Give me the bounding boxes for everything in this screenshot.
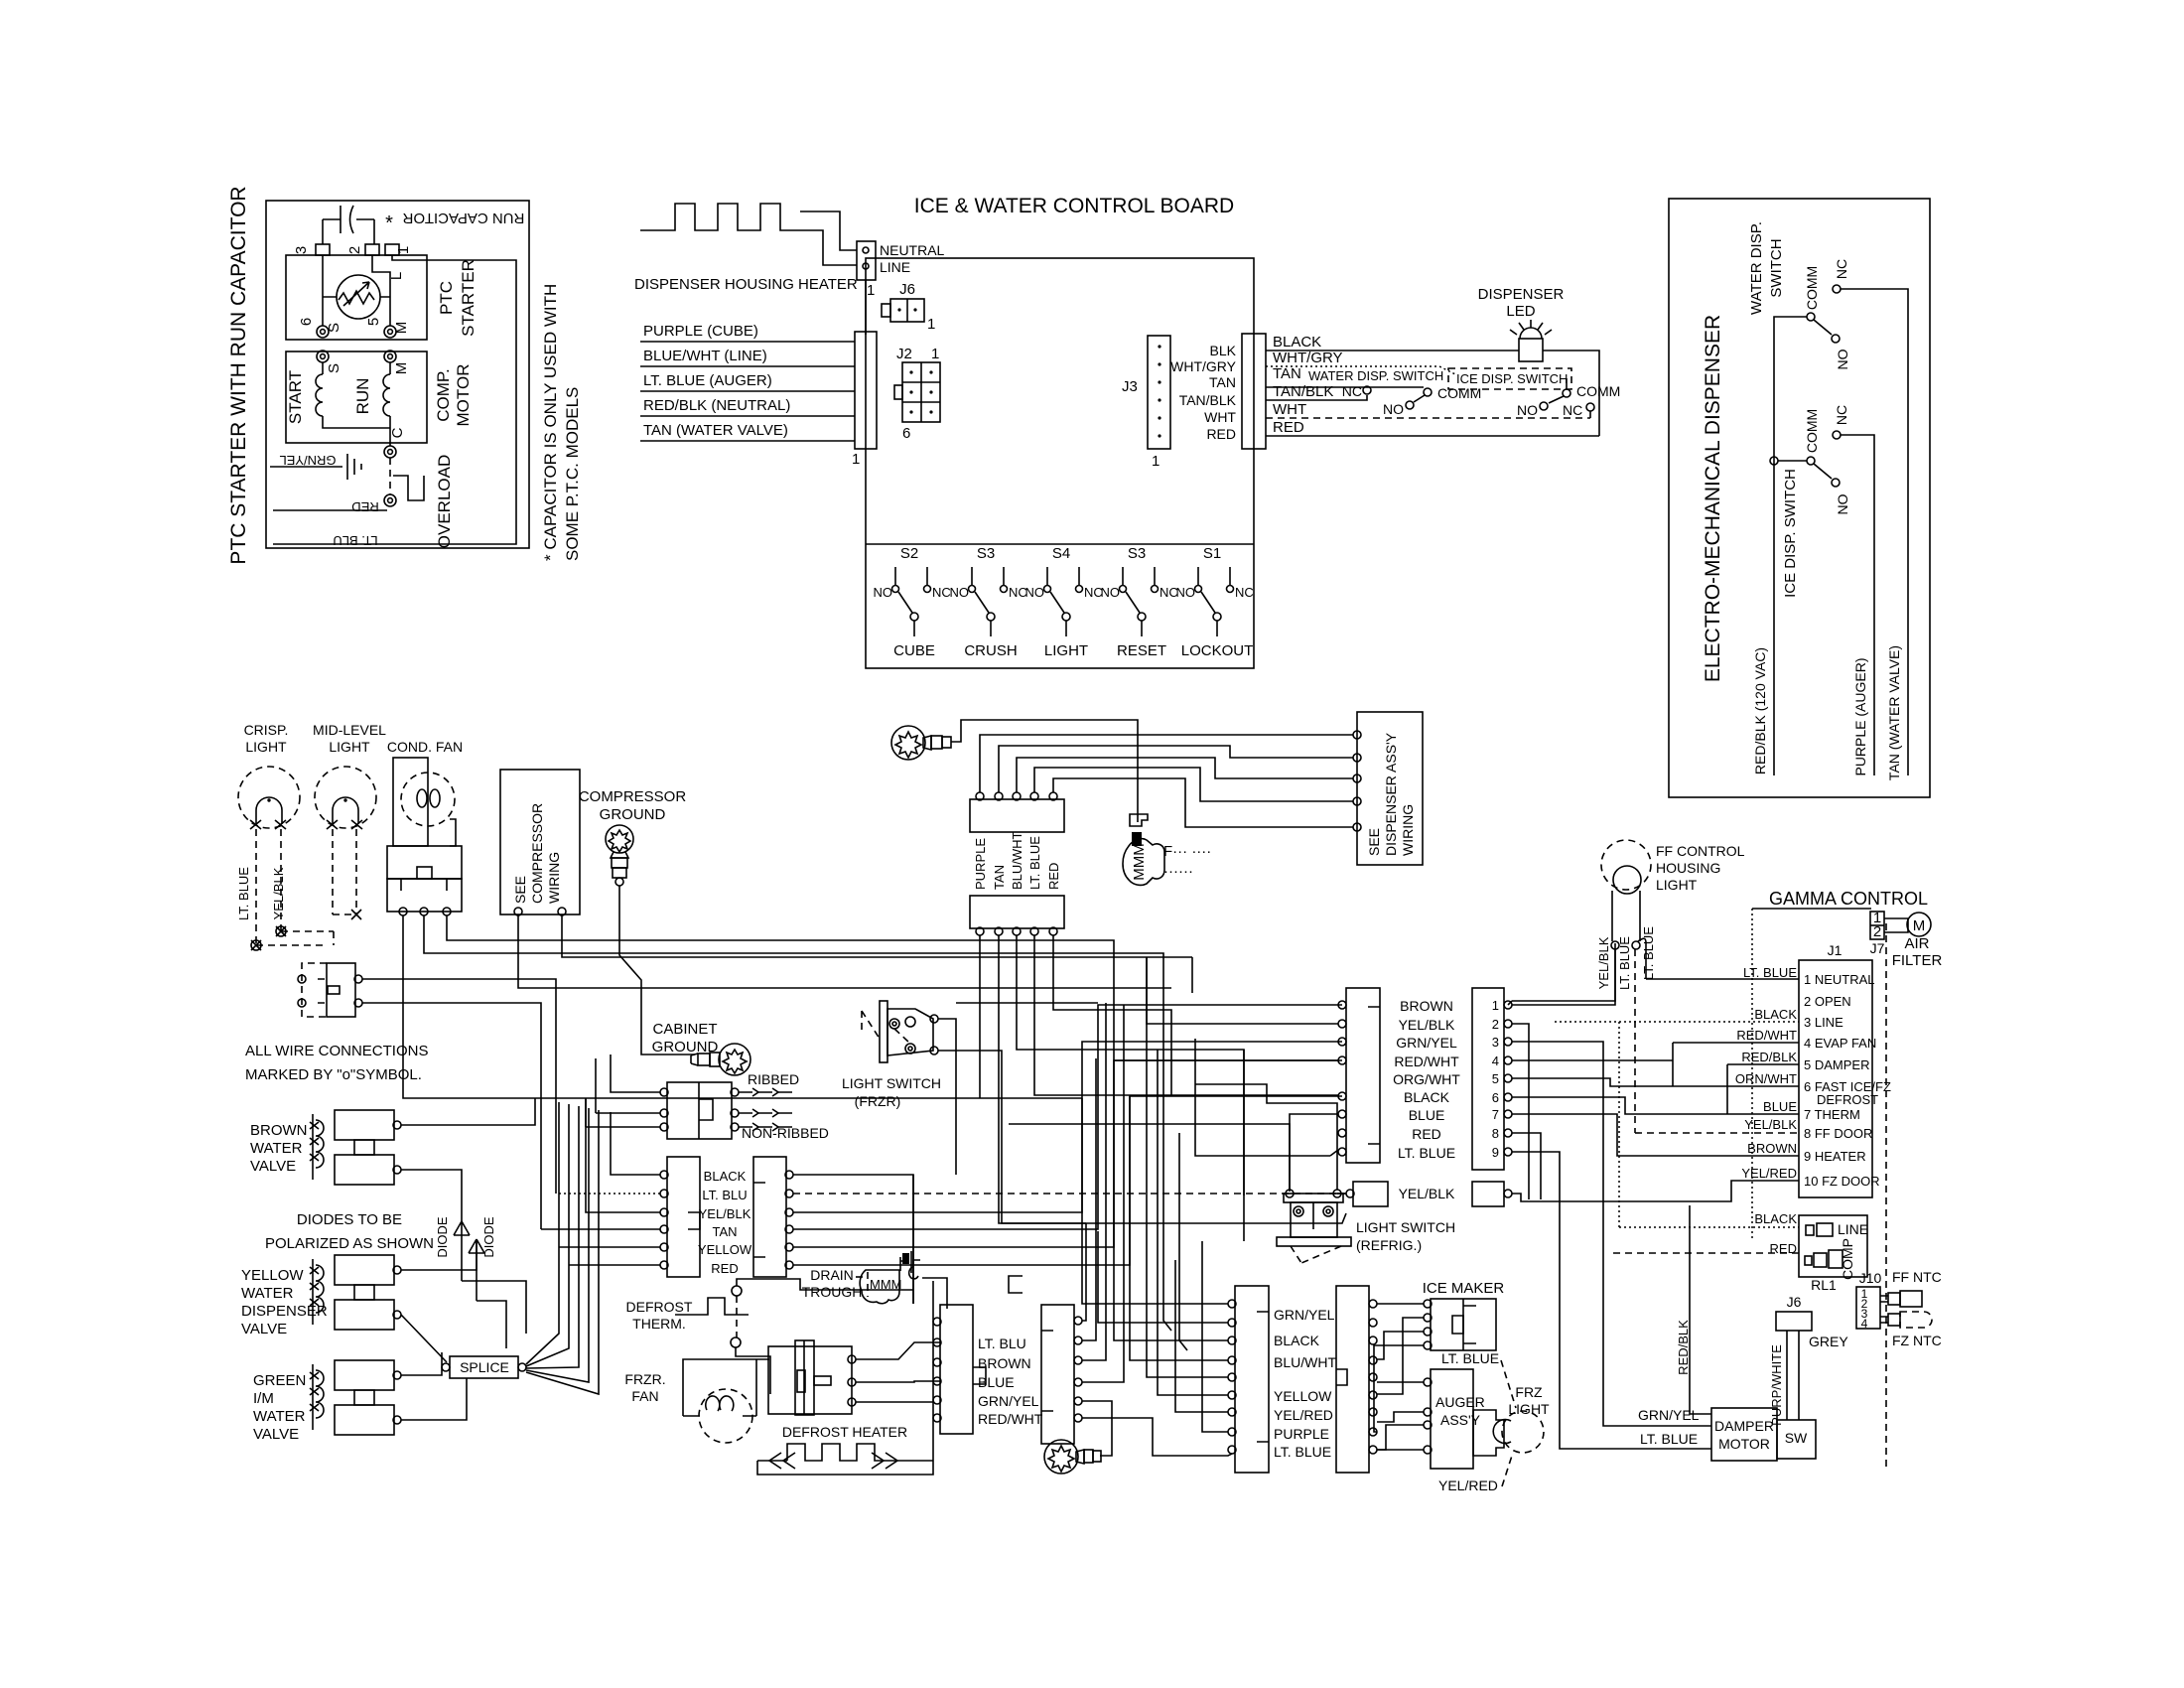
svg-text:GRN/YEL: GRN/YEL bbox=[279, 453, 336, 468]
svg-text:LOCKOUT: LOCKOUT bbox=[1181, 642, 1254, 659]
svg-text:5: 5 bbox=[1492, 1071, 1499, 1086]
svg-text:RED: RED bbox=[1206, 426, 1236, 442]
svg-text:MARKED BY "o"SYMBOL.: MARKED BY "o"SYMBOL. bbox=[245, 1066, 422, 1083]
svg-text:BLUE/WHT (LINE): BLUE/WHT (LINE) bbox=[643, 348, 767, 364]
svg-text:J10: J10 bbox=[1859, 1270, 1882, 1286]
svg-text:4: 4 bbox=[1861, 1317, 1868, 1331]
svg-text:LT. BLUE (AUGER): LT. BLUE (AUGER) bbox=[643, 372, 772, 389]
svg-text:(FRZR): (FRZR) bbox=[855, 1093, 901, 1109]
svg-text:LINE: LINE bbox=[880, 259, 910, 275]
svg-text:RED/BLK (120 VAC): RED/BLK (120 VAC) bbox=[1752, 647, 1768, 774]
svg-text:COMM: COMM bbox=[1437, 385, 1481, 401]
svg-text:CABINET: CABINET bbox=[652, 1021, 717, 1038]
svg-text:1: 1 bbox=[1152, 453, 1160, 470]
terminal 6/S bbox=[317, 326, 329, 338]
svg-text:WHT/GRY: WHT/GRY bbox=[1170, 358, 1237, 374]
svg-text:WATER DISP. SWITCH: WATER DISP. SWITCH bbox=[1308, 368, 1443, 383]
svg-text:2: 2 bbox=[1873, 923, 1881, 940]
svg-text:LED: LED bbox=[1506, 303, 1535, 320]
PTC starter box U1 bbox=[286, 255, 427, 340]
svg-text:YEL/RED: YEL/RED bbox=[1438, 1477, 1498, 1493]
ice disp switch bbox=[1563, 389, 1570, 397]
svg-text:7: 7 bbox=[1492, 1107, 1499, 1122]
svg-text:STARTER: STARTER bbox=[459, 259, 478, 337]
svg-text:5 DAMPER: 5 DAMPER bbox=[1804, 1057, 1869, 1072]
svg-text:YEL/BLK: YEL/BLK bbox=[699, 1206, 751, 1221]
svg-text:LT. BLUE: LT. BLUE bbox=[1398, 1145, 1455, 1161]
connector NEUTRAL/LINE bbox=[857, 241, 876, 280]
svg-text:TAN: TAN bbox=[1209, 374, 1236, 390]
svg-text:TAN: TAN bbox=[992, 865, 1007, 890]
svg-text:PTC: PTC bbox=[437, 281, 456, 315]
svg-text:AIR: AIR bbox=[1904, 935, 1929, 952]
svg-text:RED: RED bbox=[1046, 863, 1061, 890]
svg-text:RED/WHT: RED/WHT bbox=[978, 1411, 1043, 1427]
svg-text:RUN: RUN bbox=[353, 378, 372, 415]
wire heater to NEUTRAL bbox=[800, 211, 857, 250]
svg-text:RED/BLK: RED/BLK bbox=[1741, 1050, 1797, 1064]
svg-text:6: 6 bbox=[902, 425, 910, 442]
enclosure box bbox=[266, 201, 529, 548]
svg-text:3: 3 bbox=[293, 246, 310, 254]
svg-text:TROUGH: TROUGH bbox=[802, 1284, 863, 1300]
svg-text:1: 1 bbox=[927, 316, 935, 333]
svg-text:LT. BLUE: LT. BLUE bbox=[1743, 965, 1797, 980]
svg-text:ELECTRO-MECHANICAL DISPENSER: ELECTRO-MECHANICAL DISPENSER bbox=[1702, 315, 1724, 682]
svg-text:DRAIN: DRAIN bbox=[810, 1267, 854, 1283]
svg-text:RED: RED bbox=[1273, 419, 1304, 436]
svg-text:BLUE: BLUE bbox=[978, 1374, 1015, 1390]
svg-text:LIGHT: LIGHT bbox=[1508, 1401, 1550, 1417]
SPLICE bbox=[450, 1356, 518, 1378]
switch row S4 LIGHT bbox=[1025, 545, 1103, 659]
wire LT. BLU to pin1 bbox=[273, 255, 516, 544]
svg-text:RED: RED bbox=[1412, 1126, 1441, 1142]
crisp light bulb bbox=[238, 767, 300, 828]
svg-text:COMPRESSOR: COMPRESSOR bbox=[579, 788, 687, 805]
svg-text:8: 8 bbox=[1492, 1126, 1499, 1141]
wire TAN (WATER VALVE) bbox=[1841, 289, 1908, 775]
svg-text:LT. BLUE: LT. BLUE bbox=[1617, 936, 1632, 990]
svg-text:WHT: WHT bbox=[1273, 401, 1306, 418]
svg-text:6: 6 bbox=[1492, 1090, 1499, 1105]
svg-text:2: 2 bbox=[346, 246, 363, 254]
svg-text:NC: NC bbox=[1342, 383, 1362, 399]
YEL/BLK boxes bbox=[1353, 1182, 1388, 1206]
svg-text:DIODES TO BE: DIODES TO BE bbox=[297, 1211, 402, 1228]
svg-text:RED: RED bbox=[711, 1261, 738, 1276]
connector J7 bbox=[1870, 912, 1884, 939]
wires from cond fan terminals bbox=[424, 915, 1163, 1096]
svg-text:BLACK: BLACK bbox=[1754, 1007, 1797, 1022]
svg-text:VALVE: VALVE bbox=[253, 1426, 299, 1443]
PTC thermistor (circle with zigzag) bbox=[337, 275, 380, 319]
light switch (fresh food lights) bbox=[298, 963, 362, 1017]
svg-text:LIGHT: LIGHT bbox=[245, 739, 287, 755]
terminal C bbox=[384, 446, 396, 458]
svg-text:SOME P.T.C. MODELS: SOME P.T.C. MODELS bbox=[563, 387, 582, 561]
wires from light switch right bbox=[362, 979, 556, 1194]
relay RL1 bbox=[1799, 1215, 1867, 1277]
svg-text:RIBBED: RIBBED bbox=[748, 1071, 799, 1087]
svg-text:S1: S1 bbox=[1203, 545, 1221, 562]
wires right of 1-9 connector bbox=[1512, 943, 1615, 1005]
defrost heater element bbox=[757, 1444, 904, 1461]
svg-text:ALL WIRE CONNECTIONS: ALL WIRE CONNECTIONS bbox=[245, 1043, 428, 1059]
SEE COMPRESSOR WIRING box bbox=[500, 770, 580, 914]
svg-text:S2: S2 bbox=[900, 545, 918, 562]
water disp switch bbox=[1424, 388, 1432, 396]
svg-text:NC: NC bbox=[1834, 259, 1849, 279]
svg-text:5: 5 bbox=[365, 318, 382, 326]
switch row S3 CRUSH bbox=[950, 545, 1027, 659]
svg-text:COMP.: COMP. bbox=[434, 368, 453, 422]
svg-text:WATER: WATER bbox=[241, 1285, 294, 1302]
svg-text:PURPLE: PURPLE bbox=[1274, 1426, 1329, 1442]
svg-text:LT. BLU: LT. BLU bbox=[333, 533, 377, 548]
svg-text:I/M: I/M bbox=[253, 1390, 274, 1407]
water disp switch (rotated) bbox=[1807, 313, 1815, 321]
svg-text:BLK: BLK bbox=[1210, 343, 1237, 358]
svg-text:POLARIZED AS SHOWN: POLARIZED AS SHOWN bbox=[265, 1235, 434, 1252]
SEE DISPENSER ASS'Y WIRING box bbox=[1357, 712, 1423, 865]
wire RED bbox=[273, 509, 387, 511]
auger wires bbox=[1377, 1381, 1424, 1383]
svg-text:SEE: SEE bbox=[512, 876, 528, 904]
svg-text:WIRING: WIRING bbox=[546, 852, 562, 904]
svg-text:* CAPACITOR IS ONLY USED WITH: * CAPACITOR IS ONLY USED WITH bbox=[541, 284, 560, 561]
central long verticals (bundle) bbox=[912, 1175, 914, 1304]
svg-text:WHT: WHT bbox=[1204, 409, 1236, 425]
svg-text:NO: NO bbox=[1101, 585, 1121, 600]
svg-text:S: S bbox=[326, 363, 342, 373]
svg-text:FF CONTROL: FF CONTROL bbox=[1656, 843, 1745, 859]
enclosure bbox=[1669, 199, 1930, 797]
wires into ribbed connector bbox=[586, 1055, 660, 1127]
compressor ground lug bbox=[606, 825, 633, 886]
terminal S (motor) bbox=[317, 351, 329, 362]
drain trough heater pigtail bbox=[1123, 814, 1211, 885]
svg-text:NO: NO bbox=[1835, 349, 1850, 369]
svg-text:BROWN: BROWN bbox=[250, 1122, 308, 1139]
svg-text:YEL/RED: YEL/RED bbox=[1274, 1407, 1333, 1423]
connector block (lower, bottom side) bbox=[970, 896, 1064, 928]
housing light wires bbox=[1508, 949, 1615, 1005]
svg-text:S3: S3 bbox=[1128, 545, 1146, 562]
svg-text:BLACK: BLACK bbox=[1754, 1211, 1797, 1226]
ribbed/non-ribbed connector bbox=[660, 1082, 739, 1139]
svg-text:······: ······ bbox=[1163, 863, 1193, 880]
terminal M (motor) bbox=[384, 351, 396, 362]
svg-text:GRN/YEL: GRN/YEL bbox=[1396, 1035, 1457, 1051]
ribbed wire stubs bbox=[739, 1092, 792, 1127]
svg-text:DEFROST: DEFROST bbox=[626, 1299, 693, 1315]
svg-text:YEL/BLK: YEL/BLK bbox=[1744, 1117, 1797, 1132]
svg-text:FILTER: FILTER bbox=[1892, 952, 1943, 969]
svg-text:4: 4 bbox=[1492, 1054, 1499, 1068]
junction to ice disp switch bbox=[1770, 457, 1778, 465]
svg-text:NO: NO bbox=[950, 585, 970, 600]
control board outline bbox=[866, 258, 1254, 668]
svg-text:J3: J3 bbox=[1122, 378, 1138, 395]
svg-text:BLACK: BLACK bbox=[1273, 334, 1321, 351]
svg-text:ASS'Y: ASS'Y bbox=[1440, 1412, 1481, 1428]
pin 3 bbox=[316, 244, 330, 255]
svg-text:S3: S3 bbox=[977, 545, 995, 562]
svg-text:TAN: TAN bbox=[712, 1224, 737, 1239]
svg-text:GREEN: GREEN bbox=[253, 1372, 306, 1389]
svg-text:LIGHT: LIGHT bbox=[329, 739, 370, 755]
svg-text:L: L bbox=[388, 272, 405, 280]
svg-text:THERM.: THERM. bbox=[632, 1316, 686, 1332]
pin 2 bbox=[365, 244, 379, 255]
svg-text:GROUND: GROUND bbox=[600, 806, 666, 823]
svg-text:SEE: SEE bbox=[1366, 828, 1382, 856]
svg-text:BLACK: BLACK bbox=[704, 1169, 747, 1184]
svg-text:RL1: RL1 bbox=[1811, 1277, 1837, 1293]
svg-text:LT. BLUE: LT. BLUE bbox=[1441, 1350, 1499, 1366]
svg-text:NO: NO bbox=[1176, 585, 1196, 600]
svg-text:FRZ: FRZ bbox=[1515, 1384, 1543, 1400]
svg-text:WATER DISP.: WATER DISP. bbox=[1748, 221, 1765, 315]
svg-text:DEFROST: DEFROST bbox=[1817, 1092, 1878, 1107]
wires out right side bbox=[793, 1175, 913, 1304]
wires from compressor wiring box bbox=[518, 915, 1171, 988]
svg-text:START: START bbox=[286, 370, 305, 424]
pin 1 bbox=[385, 244, 399, 255]
svg-text:BROWN: BROWN bbox=[1747, 1141, 1797, 1156]
svg-text:2 OPEN: 2 OPEN bbox=[1804, 994, 1851, 1009]
wire from yel/blk left box to light switch bbox=[1337, 1193, 1346, 1195]
svg-text:BROWN: BROWN bbox=[978, 1355, 1031, 1371]
svg-text:BLU/WHT: BLU/WHT bbox=[1274, 1354, 1336, 1370]
wire w2 TAN bbox=[999, 746, 1353, 792]
damper motor bbox=[1711, 1408, 1777, 1461]
svg-text:1 NEUTRAL: 1 NEUTRAL bbox=[1804, 972, 1875, 987]
svg-text:9 HEATER: 9 HEATER bbox=[1804, 1149, 1866, 1164]
defrost therm symbol bbox=[675, 1298, 749, 1315]
svg-text:LINE: LINE bbox=[1838, 1221, 1868, 1237]
svg-text:NEUTRAL: NEUTRAL bbox=[880, 242, 945, 258]
ice maker wires bbox=[1377, 1303, 1424, 1305]
svg-text:2: 2 bbox=[1492, 1017, 1499, 1032]
svg-text:BLUE: BLUE bbox=[1763, 1099, 1797, 1114]
svg-text:LT. BLU: LT. BLU bbox=[702, 1188, 747, 1202]
svg-text:CUBE: CUBE bbox=[893, 642, 935, 659]
svg-text:PURPLE (CUBE): PURPLE (CUBE) bbox=[643, 323, 758, 340]
svg-text:LT. BLUE: LT. BLUE bbox=[1027, 836, 1042, 890]
wires into left side bbox=[611, 1112, 660, 1175]
svg-text:J1: J1 bbox=[1828, 942, 1843, 958]
svg-text:3: 3 bbox=[1492, 1035, 1499, 1050]
svg-text:1: 1 bbox=[395, 246, 412, 254]
svg-text:NC: NC bbox=[1563, 402, 1582, 418]
evap ground lug bbox=[1044, 1440, 1101, 1474]
svg-text:NO: NO bbox=[874, 585, 893, 600]
wire from compressor ground down to cabinet ground bbox=[619, 886, 695, 1055]
svg-text:NO: NO bbox=[1383, 401, 1404, 417]
svg-text:VALVE: VALVE bbox=[241, 1321, 287, 1337]
cond fan motor bbox=[393, 758, 428, 846]
svg-text:FF NTC: FF NTC bbox=[1892, 1269, 1942, 1285]
svg-text:YELLOW: YELLOW bbox=[241, 1267, 304, 1284]
connector right edge bbox=[1242, 334, 1266, 449]
svg-text:ICE DISP. SWITCH: ICE DISP. SWITCH bbox=[1456, 371, 1568, 386]
svg-text:RUN CAPACITOR: RUN CAPACITOR bbox=[402, 210, 524, 226]
svg-text:SWITCH: SWITCH bbox=[1768, 238, 1785, 297]
svg-text:GRN/YEL: GRN/YEL bbox=[978, 1393, 1039, 1409]
svg-text:ICE & WATER CONTROL BOARD: ICE & WATER CONTROL BOARD bbox=[914, 195, 1234, 217]
wire pin3 to terminal 6 bbox=[322, 255, 324, 326]
wires into left of GRN/YEL block bbox=[1082, 1098, 1228, 1304]
svg-text:DIODE: DIODE bbox=[435, 1216, 450, 1258]
svg-text:J2: J2 bbox=[896, 346, 912, 362]
svg-text:6: 6 bbox=[298, 318, 315, 326]
svg-text:*: * bbox=[385, 212, 393, 234]
svg-text:WHT/GRY: WHT/GRY bbox=[1273, 350, 1343, 366]
switch row S2 CUBE bbox=[874, 545, 951, 659]
svg-text:MID-LEVEL: MID-LEVEL bbox=[313, 722, 386, 738]
svg-text:PURPLE (AUGER): PURPLE (AUGER) bbox=[1852, 657, 1868, 775]
ground wire GRN/YEL bbox=[270, 466, 342, 468]
svg-text:(REFRIG.): (REFRIG.) bbox=[1356, 1237, 1422, 1253]
svg-text:RED/BLK: RED/BLK bbox=[1676, 1320, 1691, 1375]
svg-text:ORN/WHT: ORN/WHT bbox=[1735, 1071, 1797, 1086]
central bundle extra verticals bbox=[1053, 935, 1171, 1096]
ground symbol bbox=[347, 454, 361, 480]
svg-text:FRZR.: FRZR. bbox=[624, 1371, 665, 1387]
svg-text:TAN/BLK: TAN/BLK bbox=[1273, 383, 1333, 400]
svg-text:GRN/YEL: GRN/YEL bbox=[1274, 1307, 1335, 1323]
svg-text:LIGHT: LIGHT bbox=[1656, 877, 1698, 893]
svg-text:9: 9 bbox=[1492, 1145, 1499, 1160]
svg-text:1: 1 bbox=[852, 451, 860, 468]
svg-text:DISPENSER: DISPENSER bbox=[1478, 286, 1565, 303]
ground lug (dispenser ground) bbox=[891, 726, 951, 760]
air filter motor bbox=[1884, 918, 1908, 932]
wires from light switch frzr bbox=[938, 1019, 956, 1175]
svg-text:LIGHT SWITCH: LIGHT SWITCH bbox=[1356, 1219, 1455, 1235]
wire w4 LT.BLUE bbox=[1034, 768, 1353, 801]
svg-text:C: C bbox=[389, 427, 406, 438]
svg-text:RESET: RESET bbox=[1117, 642, 1166, 659]
svg-text:YEL/BLK: YEL/BLK bbox=[1596, 936, 1611, 989]
label ICE DISP. SWITCH (dashed box) bbox=[1448, 368, 1571, 389]
svg-text:NO: NO bbox=[1025, 585, 1045, 600]
wire w5 RED bbox=[1053, 778, 1353, 827]
svg-text:BLU/WHT: BLU/WHT bbox=[1010, 831, 1024, 890]
svg-text:RED: RED bbox=[351, 499, 378, 514]
run winding coil bbox=[389, 362, 391, 374]
svg-text:HOUSING: HOUSING bbox=[1656, 860, 1720, 876]
svg-text:7 THERM: 7 THERM bbox=[1804, 1107, 1860, 1122]
svg-text:RED/WHT: RED/WHT bbox=[1736, 1028, 1797, 1043]
splice fan wires bbox=[526, 1102, 559, 1364]
svg-text:NO: NO bbox=[1517, 402, 1538, 418]
svg-text:F··· ····: F··· ···· bbox=[1163, 843, 1211, 860]
svg-text:TAN (WATER VALVE): TAN (WATER VALVE) bbox=[1886, 645, 1902, 780]
svg-text:LT. BLUE: LT. BLUE bbox=[236, 867, 251, 920]
terminal 5/M bbox=[384, 326, 396, 338]
svg-text:MMM: MMM bbox=[1131, 843, 1148, 881]
svg-text:NC: NC bbox=[1834, 405, 1849, 425]
connector J-left bbox=[855, 332, 877, 449]
svg-text:YELLOW: YELLOW bbox=[698, 1242, 752, 1257]
LED lamp bbox=[1519, 339, 1543, 361]
dispenser housing heater (crenellated resistor) bbox=[640, 204, 800, 230]
svg-text:COMP: COMP bbox=[1840, 1238, 1855, 1280]
wires into left of BROWN..LT.BLUE connector bbox=[1147, 957, 1338, 1024]
svg-text:1: 1 bbox=[931, 346, 939, 362]
svg-text:LIGHT: LIGHT bbox=[1044, 642, 1088, 659]
svg-text:DEFROST HEATER: DEFROST HEATER bbox=[782, 1424, 907, 1440]
svg-text:SPLICE: SPLICE bbox=[460, 1359, 509, 1375]
switch row S1 LOCKOUT bbox=[1176, 545, 1254, 659]
svg-text:J6: J6 bbox=[1787, 1294, 1802, 1310]
svg-text:10 FZ DOOR: 10 FZ DOOR bbox=[1804, 1174, 1880, 1189]
svg-text:OVERLOAD: OVERLOAD bbox=[435, 455, 454, 548]
svg-text:BLACK: BLACK bbox=[1404, 1089, 1450, 1105]
svg-text:WATER: WATER bbox=[253, 1408, 306, 1425]
wire heater to LINE bbox=[800, 230, 857, 265]
wire w1 PURPLE bbox=[980, 735, 1353, 792]
svg-text:BLACK: BLACK bbox=[1274, 1333, 1320, 1348]
svg-text:BROWN: BROWN bbox=[1400, 998, 1453, 1014]
svg-text:NC: NC bbox=[932, 585, 951, 600]
dashed wires from bulbs to light switch bbox=[256, 829, 327, 945]
svg-text:DISPENSER HOUSING HEATER: DISPENSER HOUSING HEATER bbox=[634, 276, 858, 293]
svg-text:1: 1 bbox=[1492, 998, 1499, 1013]
wire RED/BLK (120 VAC) bbox=[1774, 317, 1807, 775]
svg-text:8 FF DOOR: 8 FF DOOR bbox=[1804, 1126, 1872, 1141]
svg-text:NO: NO bbox=[1835, 493, 1850, 514]
svg-text:M: M bbox=[1913, 917, 1926, 934]
COMP MOTOR box M1 bbox=[286, 352, 427, 443]
svg-text:CRISP.: CRISP. bbox=[244, 722, 289, 738]
svg-text:COMM: COMM bbox=[1804, 266, 1820, 310]
svg-text:PTC STARTER WITH RUN CAPACITOR: PTC STARTER WITH RUN CAPACITOR bbox=[227, 186, 250, 564]
wire from connector down inside board bbox=[865, 280, 867, 335]
svg-text:COMM: COMM bbox=[1804, 409, 1820, 453]
svg-text:YEL/BLK: YEL/BLK bbox=[1399, 1017, 1455, 1033]
svg-text:ICE MAKER: ICE MAKER bbox=[1423, 1280, 1505, 1297]
svg-text:M: M bbox=[393, 362, 410, 375]
svg-text:J7: J7 bbox=[1870, 940, 1885, 956]
svg-text:LIGHT SWITCH: LIGHT SWITCH bbox=[842, 1075, 941, 1091]
svg-text:AUGER: AUGER bbox=[1435, 1394, 1485, 1410]
wire pin2 / L node bbox=[372, 255, 390, 326]
wire PURPLE (AUGER) bbox=[1841, 435, 1874, 775]
wires from diodes down bbox=[462, 1281, 526, 1348]
svg-text:4 EVAP FAN: 4 EVAP FAN bbox=[1804, 1036, 1876, 1051]
start winding coil bbox=[322, 362, 324, 374]
svg-text:FAN: FAN bbox=[631, 1388, 658, 1404]
svg-text:TAN (WATER VALVE): TAN (WATER VALVE) bbox=[643, 422, 788, 439]
svg-text:TAN/BLK: TAN/BLK bbox=[1179, 392, 1237, 408]
svg-text:DISPENSER: DISPENSER bbox=[241, 1303, 328, 1320]
svg-text:PURPLE: PURPLE bbox=[973, 838, 988, 890]
wire w3 BLU/WHT bbox=[1017, 758, 1353, 792]
svg-text:YEL/BLK: YEL/BLK bbox=[271, 867, 286, 919]
svg-text:TAN: TAN bbox=[1273, 365, 1301, 382]
svg-text:S: S bbox=[326, 323, 342, 333]
svg-text:ICE DISP. SWITCH: ICE DISP. SWITCH bbox=[1782, 469, 1799, 598]
svg-text:GREY: GREY bbox=[1809, 1334, 1848, 1349]
svg-text:3 LINE: 3 LINE bbox=[1804, 1015, 1843, 1030]
ice disp switch (rotated) bbox=[1807, 457, 1815, 465]
svg-text:YELLOW: YELLOW bbox=[1274, 1388, 1332, 1404]
svg-text:LT. BLUE: LT. BLUE bbox=[1640, 1431, 1698, 1447]
